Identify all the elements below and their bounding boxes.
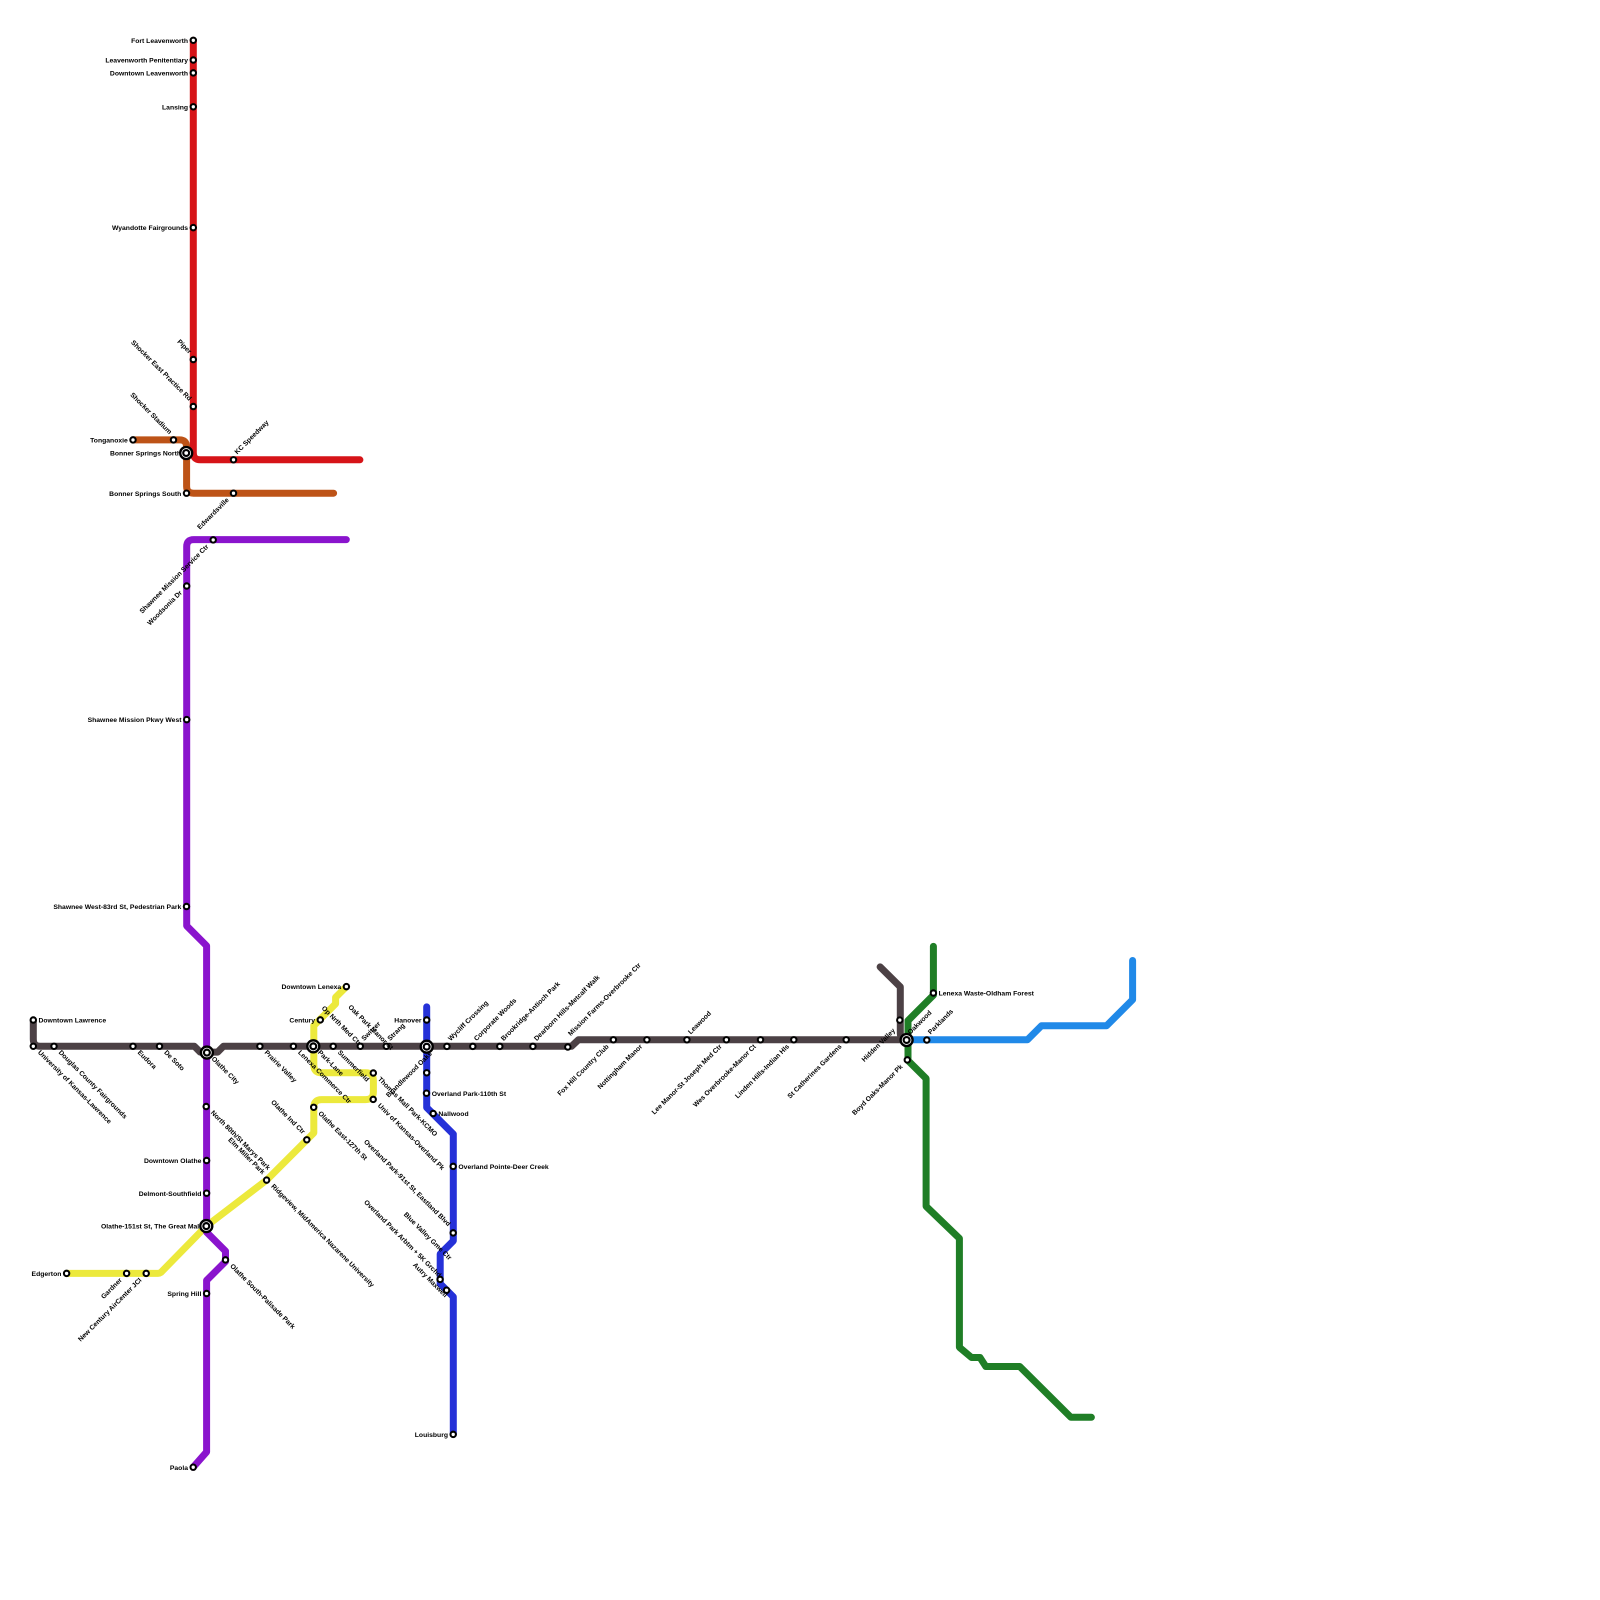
station Boyd Oaks	[905, 1057, 910, 1062]
station Edwardsville	[231, 491, 236, 496]
station Spring Hill	[204, 1291, 209, 1296]
station SM Service Ctr	[211, 537, 216, 542]
light blue line	[907, 961, 1133, 1040]
station Douglas County	[51, 1044, 56, 1049]
red line	[193, 40, 360, 460]
station Fox Hill	[611, 1037, 616, 1042]
station Gardner	[124, 1271, 129, 1276]
station Tonganoxie	[130, 437, 135, 442]
svg-text:Shawnee Mission Pkwy West: Shawnee Mission Pkwy West	[88, 717, 183, 724]
transfer station junction	[901, 1034, 913, 1046]
station Edgerton	[64, 1271, 69, 1276]
transfer station Bonner Springs North	[180, 447, 192, 459]
station Century	[318, 1017, 323, 1022]
station Nottingham	[644, 1037, 649, 1042]
station Mission Farms	[565, 1044, 570, 1049]
station Woodsonia	[184, 583, 189, 588]
svg-text:Overland Pointe-Deer Creek: Overland Pointe-Deer Creek	[458, 1164, 549, 1171]
station blue mid	[424, 1070, 429, 1075]
station Bonner Springs South	[184, 491, 189, 496]
svg-text:Lansing: Lansing	[162, 104, 188, 111]
station Strang	[384, 1044, 389, 1049]
svg-text:Bonner Springs North: Bonner Springs North	[110, 451, 181, 458]
svg-text:Wyandotte Fairgrounds: Wyandotte Fairgrounds	[112, 225, 188, 232]
station St Catherines	[844, 1037, 849, 1042]
station Downtown Olathe	[204, 1158, 209, 1163]
svg-text:Downtown Olathe: Downtown Olathe	[144, 1158, 202, 1165]
station blue jog a	[451, 1230, 456, 1235]
svg-text:Century: Century	[289, 1018, 315, 1025]
station Hanover	[424, 1017, 429, 1022]
station Downtown Lawrence	[31, 1017, 36, 1022]
station Ridgeview	[264, 1177, 269, 1182]
station Shocker Stadium	[171, 437, 176, 442]
svg-text:Edgerton: Edgerton	[32, 1271, 62, 1278]
station Wes Overbrooke	[758, 1037, 763, 1042]
svg-text:Fort Leavenworth: Fort Leavenworth	[131, 38, 188, 45]
station North 80th	[204, 1104, 209, 1109]
station blue jog c	[444, 1288, 449, 1293]
station Wycliff	[444, 1044, 449, 1049]
transfer station Park-Lane	[307, 1040, 319, 1052]
station Hidden Valley	[897, 1017, 902, 1022]
station Brookridge	[497, 1044, 502, 1049]
yellow line	[67, 987, 374, 1274]
transfer station Olathe City	[201, 1047, 213, 1059]
station Olathe East	[311, 1105, 316, 1110]
station Univ Kansas OP	[371, 1097, 376, 1102]
station Lansing	[191, 104, 196, 109]
station Fort Leavenworth	[191, 38, 196, 43]
station Overland Pointe	[451, 1164, 456, 1169]
svg-text:Hanover: Hanover	[394, 1018, 422, 1025]
station Lee Manor	[724, 1037, 729, 1042]
svg-text:Downtown Lenexa: Downtown Lenexa	[282, 984, 342, 991]
green line	[908, 946, 1091, 1417]
station KC Speedway	[231, 457, 236, 462]
station Paola	[191, 1465, 196, 1470]
station SM Pkwy West	[184, 717, 189, 722]
station Olathe Ind Ctr	[304, 1137, 309, 1142]
station Dearborn	[530, 1044, 535, 1049]
station Linden Hills	[791, 1037, 796, 1042]
purple line	[187, 540, 347, 1468]
svg-text:Bonner Springs South: Bonner Springs South	[109, 491, 181, 498]
station Wyandotte Fairgrounds	[191, 225, 196, 230]
station Olathe South	[223, 1257, 228, 1262]
station Prairie Valley	[257, 1044, 262, 1049]
svg-text:Leavenworth Penitentiary: Leavenworth Penitentiary	[105, 58, 188, 65]
station New Century	[144, 1271, 149, 1276]
gray line main	[33, 1020, 906, 1052]
station Summerfield	[331, 1044, 336, 1049]
station Leavenworth Penitentiary	[191, 57, 196, 62]
svg-text:Spring Hill: Spring Hill	[167, 1291, 201, 1298]
station Univ Kansas	[31, 1044, 36, 1049]
station Lenexa Commerce	[291, 1044, 296, 1049]
svg-text:Downtown Lawrence: Downtown Lawrence	[39, 1018, 107, 1025]
svg-text:Nallwood: Nallwood	[438, 1111, 468, 1118]
gray line north spur	[880, 967, 907, 1040]
svg-text:Shawnee West-83rd St, Pedestri: Shawnee West-83rd St, Pedestrian Park	[53, 904, 181, 911]
svg-text:Tonganoxie: Tonganoxie	[90, 438, 128, 445]
svg-text:Downtown Leavenworth: Downtown Leavenworth	[110, 71, 188, 78]
svg-text:Paola: Paola	[170, 1465, 188, 1472]
station Nallwood	[431, 1111, 436, 1116]
station Shawnee West	[184, 904, 189, 909]
transfer station Hanover xfer	[421, 1041, 433, 1053]
station Lenexa Waste	[931, 990, 936, 995]
station Shocker East	[191, 404, 196, 409]
station Switzer	[358, 1044, 363, 1049]
station Piper	[191, 357, 196, 362]
station Parklands	[924, 1037, 929, 1042]
svg-text:Overland Park-110th St: Overland Park-110th St	[432, 1091, 507, 1098]
station blue jog b	[437, 1277, 442, 1282]
station Thomas Mall	[371, 1070, 376, 1075]
station Delmont	[204, 1191, 209, 1196]
station Leawood	[684, 1037, 689, 1042]
station Eudora	[130, 1044, 135, 1049]
svg-text:Louisburg: Louisburg	[415, 1432, 448, 1439]
station OP 110th	[424, 1091, 429, 1096]
station De Soto	[157, 1044, 162, 1049]
svg-text:Delmont-Southfield: Delmont-Southfield	[139, 1191, 202, 1198]
blue line	[427, 1007, 454, 1435]
station Downtown Leavenworth	[191, 70, 196, 75]
svg-text:Olathe-151st St, The Great Mal: Olathe-151st St, The Great Mall	[101, 1224, 201, 1231]
station Louisburg	[451, 1432, 456, 1437]
transfer station Great Mall	[200, 1220, 212, 1232]
station Corporate Woods	[470, 1044, 475, 1049]
orange line	[133, 440, 334, 493]
station Downtown Lenexa	[344, 984, 349, 989]
svg-text:Lenexa Waste-Oldham Forest: Lenexa Waste-Oldham Forest	[939, 991, 1035, 998]
